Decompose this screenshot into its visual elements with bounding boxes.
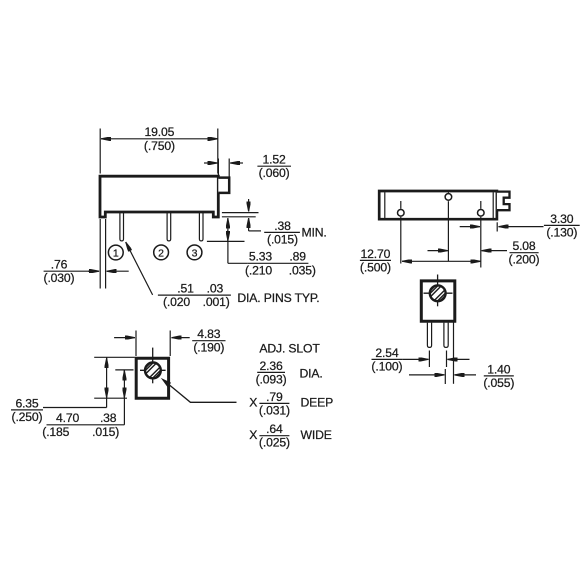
- dim 3.30 (.130) edge to hole: [496, 222, 498, 231]
- end view body: [136, 358, 168, 398]
- top view tab: [497, 192, 510, 211]
- pin end reference line: [207, 240, 245, 242]
- svg-text:(.750): (.750): [144, 139, 175, 153]
- svg-text:(.185: (.185: [42, 425, 69, 439]
- svg-text:5.08: 5.08: [512, 239, 535, 253]
- front view screw centerlines: [424, 292, 453, 294]
- svg-text:X: X: [249, 428, 257, 442]
- pin 3: [199, 213, 203, 241]
- svg-text:(.015): (.015): [267, 232, 298, 246]
- svg-text:6.35: 6.35: [15, 396, 38, 410]
- svg-text:.79: .79: [266, 390, 283, 404]
- front pin right: [444, 323, 448, 348]
- front pin left: [427, 323, 431, 348]
- adj slot leader arrow: [161, 378, 171, 387]
- screw center extension line: [115, 369, 133, 371]
- pin 2: [167, 213, 171, 241]
- top view body: [379, 191, 497, 219]
- dim 5.33 (.210) / .89 (.035) pin length: [227, 218, 229, 228]
- pin number 3: [187, 245, 202, 260]
- dim 12.70 (.500) hole span: [402, 260, 481, 262]
- dim 4.83 (.190) body depth: [135, 331, 137, 357]
- svg-text:(.210: (.210: [245, 263, 272, 277]
- svg-text:DEEP: DEEP: [301, 396, 334, 410]
- end view screw centerlines: [140, 369, 166, 371]
- pin 1: [120, 213, 124, 241]
- svg-text:(.031): (.031): [259, 403, 290, 417]
- hole pin 1 centerline: [400, 201, 402, 209]
- hole pin 2 centerline: [447, 191, 449, 193]
- svg-text:(.060): (.060): [259, 166, 290, 180]
- pin number 2: [154, 245, 169, 260]
- dim 6.35 (.250) body height arrow: [106, 358, 108, 408]
- svg-text:19.05: 19.05: [145, 125, 175, 139]
- svg-text:.89: .89: [289, 250, 306, 264]
- svg-text:.38: .38: [274, 219, 291, 233]
- svg-text:ADJ. SLOT: ADJ. SLOT: [259, 342, 320, 356]
- hole pin 3 centerline: [480, 201, 482, 209]
- svg-text:2.36: 2.36: [260, 359, 283, 373]
- svg-text:WIDE: WIDE: [301, 428, 332, 442]
- seating plane lines: [222, 212, 259, 214]
- svg-text:(.025): (.025): [259, 436, 290, 450]
- svg-text:MIN.: MIN.: [302, 226, 327, 240]
- dim 2.54 (.100) pin spacing: [428, 351, 430, 368]
- hole pin 3: [478, 210, 485, 217]
- svg-text:DIA. PINS TYP.: DIA. PINS TYP.: [237, 291, 319, 305]
- svg-text:(.190): (.190): [193, 341, 224, 355]
- top view inner edge right: [492, 192, 494, 218]
- side view mounting tab: [218, 178, 229, 193]
- svg-text:2: 2: [158, 247, 164, 259]
- svg-text:3: 3: [192, 247, 198, 259]
- front view adjustment screw: [430, 285, 446, 301]
- dim 1.40 (.055) pin width: [444, 369, 446, 384]
- dim 19.05 (.750) body width: [99, 129, 101, 174]
- svg-text:.51: .51: [177, 282, 194, 296]
- svg-text:.03: .03: [207, 282, 224, 296]
- svg-text:(.055): (.055): [483, 376, 514, 390]
- svg-text:(.093): (.093): [256, 372, 287, 386]
- side view body: [100, 176, 218, 217]
- svg-text:(.200): (.200): [509, 253, 540, 267]
- svg-text:X: X: [249, 396, 257, 410]
- bottom edge extension line: [94, 397, 127, 399]
- svg-text:DIA.: DIA.: [300, 366, 323, 380]
- svg-text:(.250): (.250): [12, 410, 43, 424]
- top edge extension line: [94, 356, 135, 358]
- svg-text:.001): .001): [203, 295, 230, 309]
- body edge extension line: [453, 323, 455, 384]
- svg-text:2.54: 2.54: [375, 346, 398, 360]
- svg-text:(.030): (.030): [44, 271, 75, 285]
- pin number 1: [108, 245, 123, 260]
- dim 1.52 (.060) tab width: [217, 159, 219, 177]
- dim 5.08 (.200) hole spacing: [428, 250, 448, 252]
- svg-text:4.83: 4.83: [197, 327, 220, 341]
- svg-text:(.130): (.130): [546, 225, 577, 239]
- hole pin 1: [398, 210, 405, 217]
- svg-text:4.70: 4.70: [56, 411, 79, 425]
- svg-text:.035): .035): [289, 263, 316, 277]
- svg-text:.64: .64: [266, 422, 283, 436]
- svg-text:.38: .38: [100, 411, 117, 425]
- svg-text:5.33: 5.33: [249, 250, 272, 264]
- top view inner edge left: [384, 192, 386, 218]
- front view body: [421, 281, 455, 321]
- dim .51 (.020) / .03 (.001) pin dia leader: [126, 242, 153, 295]
- dim 4.70 (.185) / .38 (.015) screw center height arrow: [123, 370, 125, 425]
- end view adjustment screw: [145, 363, 161, 379]
- svg-text:1: 1: [113, 247, 119, 259]
- dim .38 (.015) MIN standoff: [248, 199, 250, 212]
- svg-text:1.40: 1.40: [487, 362, 510, 376]
- svg-text:(.500): (.500): [360, 260, 391, 274]
- svg-text:(.020: (.020: [163, 295, 190, 309]
- hole pin 2: [445, 194, 452, 201]
- svg-text:.76: .76: [51, 258, 68, 272]
- svg-text:1.52: 1.52: [263, 153, 286, 167]
- svg-text:(.100): (.100): [371, 359, 402, 373]
- svg-text:.015): .015): [92, 425, 119, 439]
- svg-text:3.30: 3.30: [550, 212, 573, 226]
- svg-text:12.70: 12.70: [361, 247, 391, 261]
- dim .76 (.030) wall thickness: [99, 219, 101, 289]
